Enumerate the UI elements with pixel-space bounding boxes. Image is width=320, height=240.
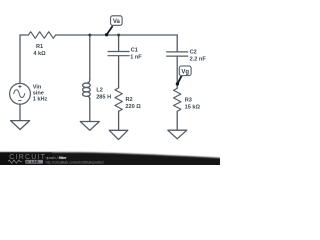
footer logo CIRCUIT LAB [8, 154, 46, 164]
wire R3 bottom lead [176, 111, 178, 130]
wire L2 branch top lead [89, 35, 91, 79]
ground (under R3) [168, 130, 187, 139]
node at C1 junction [117, 34, 120, 37]
capacitor C1 [108, 35, 129, 88]
svg-text:Va: Va [113, 19, 121, 25]
svg-text:L2: L2 [96, 88, 103, 94]
svg-text:1 nF: 1 nF [130, 54, 142, 60]
svg-text:15 kΩ: 15 kΩ [185, 105, 201, 111]
svg-text:2.2 nF: 2.2 nF [190, 56, 207, 62]
svg-text:R1: R1 [36, 44, 43, 50]
svg-text:1 kHz: 1 kHz [33, 96, 48, 102]
svg-text:285 H: 285 H [96, 95, 111, 101]
svg-text:220 Ω: 220 Ω [125, 104, 141, 110]
wire top horizontal to right corner [56, 34, 178, 36]
ground (under L2) [80, 122, 99, 131]
wire C2 branch top lead [176, 35, 178, 51]
svg-text:LAB: LAB [31, 160, 39, 164]
svg-text:http://circuitlab.com/c/hz58ra: http://circuitlab.com/c/hz58rakcpw6e2 [46, 160, 104, 164]
node at L2 junction [88, 34, 91, 37]
svg-text:4 kΩ: 4 kΩ [33, 51, 46, 57]
svg-text:Vg: Vg [181, 70, 189, 76]
resistor R2 [115, 88, 122, 111]
inductor L2 [83, 79, 91, 99]
ground (under R2) [109, 130, 128, 139]
wire source bottom lead [19, 104, 21, 120]
voltage source V1 Vin [10, 83, 31, 104]
svg-text:R3: R3 [185, 98, 192, 104]
footer logo block [0, 152, 52, 165]
resistor R1 [28, 32, 55, 39]
svg-text:C2: C2 [190, 50, 197, 56]
probe flag Vg [176, 66, 191, 86]
footer bar [0, 152, 223, 168]
wire L2 bottom lead [89, 99, 91, 122]
resistor R3 [174, 88, 181, 111]
capacitor C2 [167, 52, 188, 89]
ground (left, under Vin) [11, 121, 30, 130]
probe flag Va [105, 16, 122, 37]
svg-text:sine: sine [33, 90, 44, 96]
svg-text:R2: R2 [126, 97, 133, 103]
svg-text:C1: C1 [131, 48, 138, 54]
wire top horizontal left lead [20, 34, 28, 36]
wire left vertical [19, 35, 21, 83]
wire R2 bottom lead [118, 111, 120, 130]
